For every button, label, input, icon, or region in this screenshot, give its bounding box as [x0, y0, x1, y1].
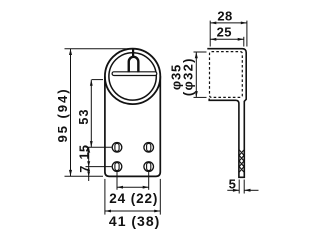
label 41 (38) — [109, 213, 160, 229]
extension line 25 dim right — [243, 37, 245, 47]
svg-text:25: 25 — [217, 25, 232, 40]
extension line bar bottom (53 dim) — [92, 79, 103, 81]
dimension 15 line — [87, 147, 90, 166]
side view solid profile — [207, 49, 246, 178]
dimension 41 (38) line — [105, 210, 160, 213]
extension lines phi35 dim — [194, 52, 207, 97]
contact arch — [129, 57, 139, 72]
socket inner circle — [109, 53, 156, 100]
label 25 — [217, 25, 232, 40]
svg-text:5: 5 — [229, 177, 236, 192]
extension lines 28 dim — [210, 21, 247, 47]
label 28 — [217, 8, 232, 23]
label 15 — [77, 145, 91, 160]
dimension 25 line — [210, 38, 244, 41]
label 24 (22) — [109, 191, 158, 206]
dimension 5 line — [227, 189, 258, 192]
label phi32 — [181, 57, 196, 96]
extension line bottom hole row — [86, 166, 112, 168]
mounting hole bottom-right — [144, 162, 154, 172]
label phi35 — [169, 64, 184, 90]
slot stem — [132, 49, 134, 57]
svg-text:41 (38): 41 (38) — [109, 213, 160, 229]
socket outer circle — [105, 49, 160, 104]
lamp contact bar — [112, 72, 157, 76]
extension lines 5 dim — [239, 180, 244, 194]
svg-text:95 (94): 95 (94) — [55, 87, 70, 142]
side view hidden socket (dashed) — [210, 52, 243, 98]
mounting hole top-right — [144, 143, 154, 153]
extension line bottom (95 dim) — [65, 175, 104, 177]
label 7 — [78, 166, 92, 173]
svg-text:15: 15 — [77, 145, 91, 160]
label 95 (94) — [55, 87, 70, 142]
svg-text:53: 53 — [77, 108, 91, 124]
mounting hole top-left — [112, 143, 122, 153]
dimension 95 (94) line — [69, 49, 72, 177]
dimension 7 line — [87, 167, 90, 181]
dimension 53 line — [90, 80, 93, 148]
label 5 — [229, 177, 236, 192]
label 53 — [77, 108, 91, 124]
svg-text:28: 28 — [217, 8, 232, 23]
svg-text:7: 7 — [78, 166, 92, 173]
dimension 28 line — [210, 22, 247, 25]
dimension phi35 line — [195, 52, 198, 97]
svg-text:24 (22): 24 (22) — [109, 191, 158, 206]
extension line top (95 dim) — [65, 48, 130, 50]
front view plate outline — [105, 76, 160, 176]
extension lines 41 dim — [105, 179, 160, 215]
extension line top hole row — [86, 146, 112, 148]
extension lines 24 dim — [117, 172, 149, 190]
svg-text:(φ32): (φ32) — [181, 57, 196, 96]
spring serration marks — [239, 150, 244, 172]
mounting hole bottom-left — [112, 162, 122, 172]
dimension 24 (22) line — [117, 186, 149, 189]
